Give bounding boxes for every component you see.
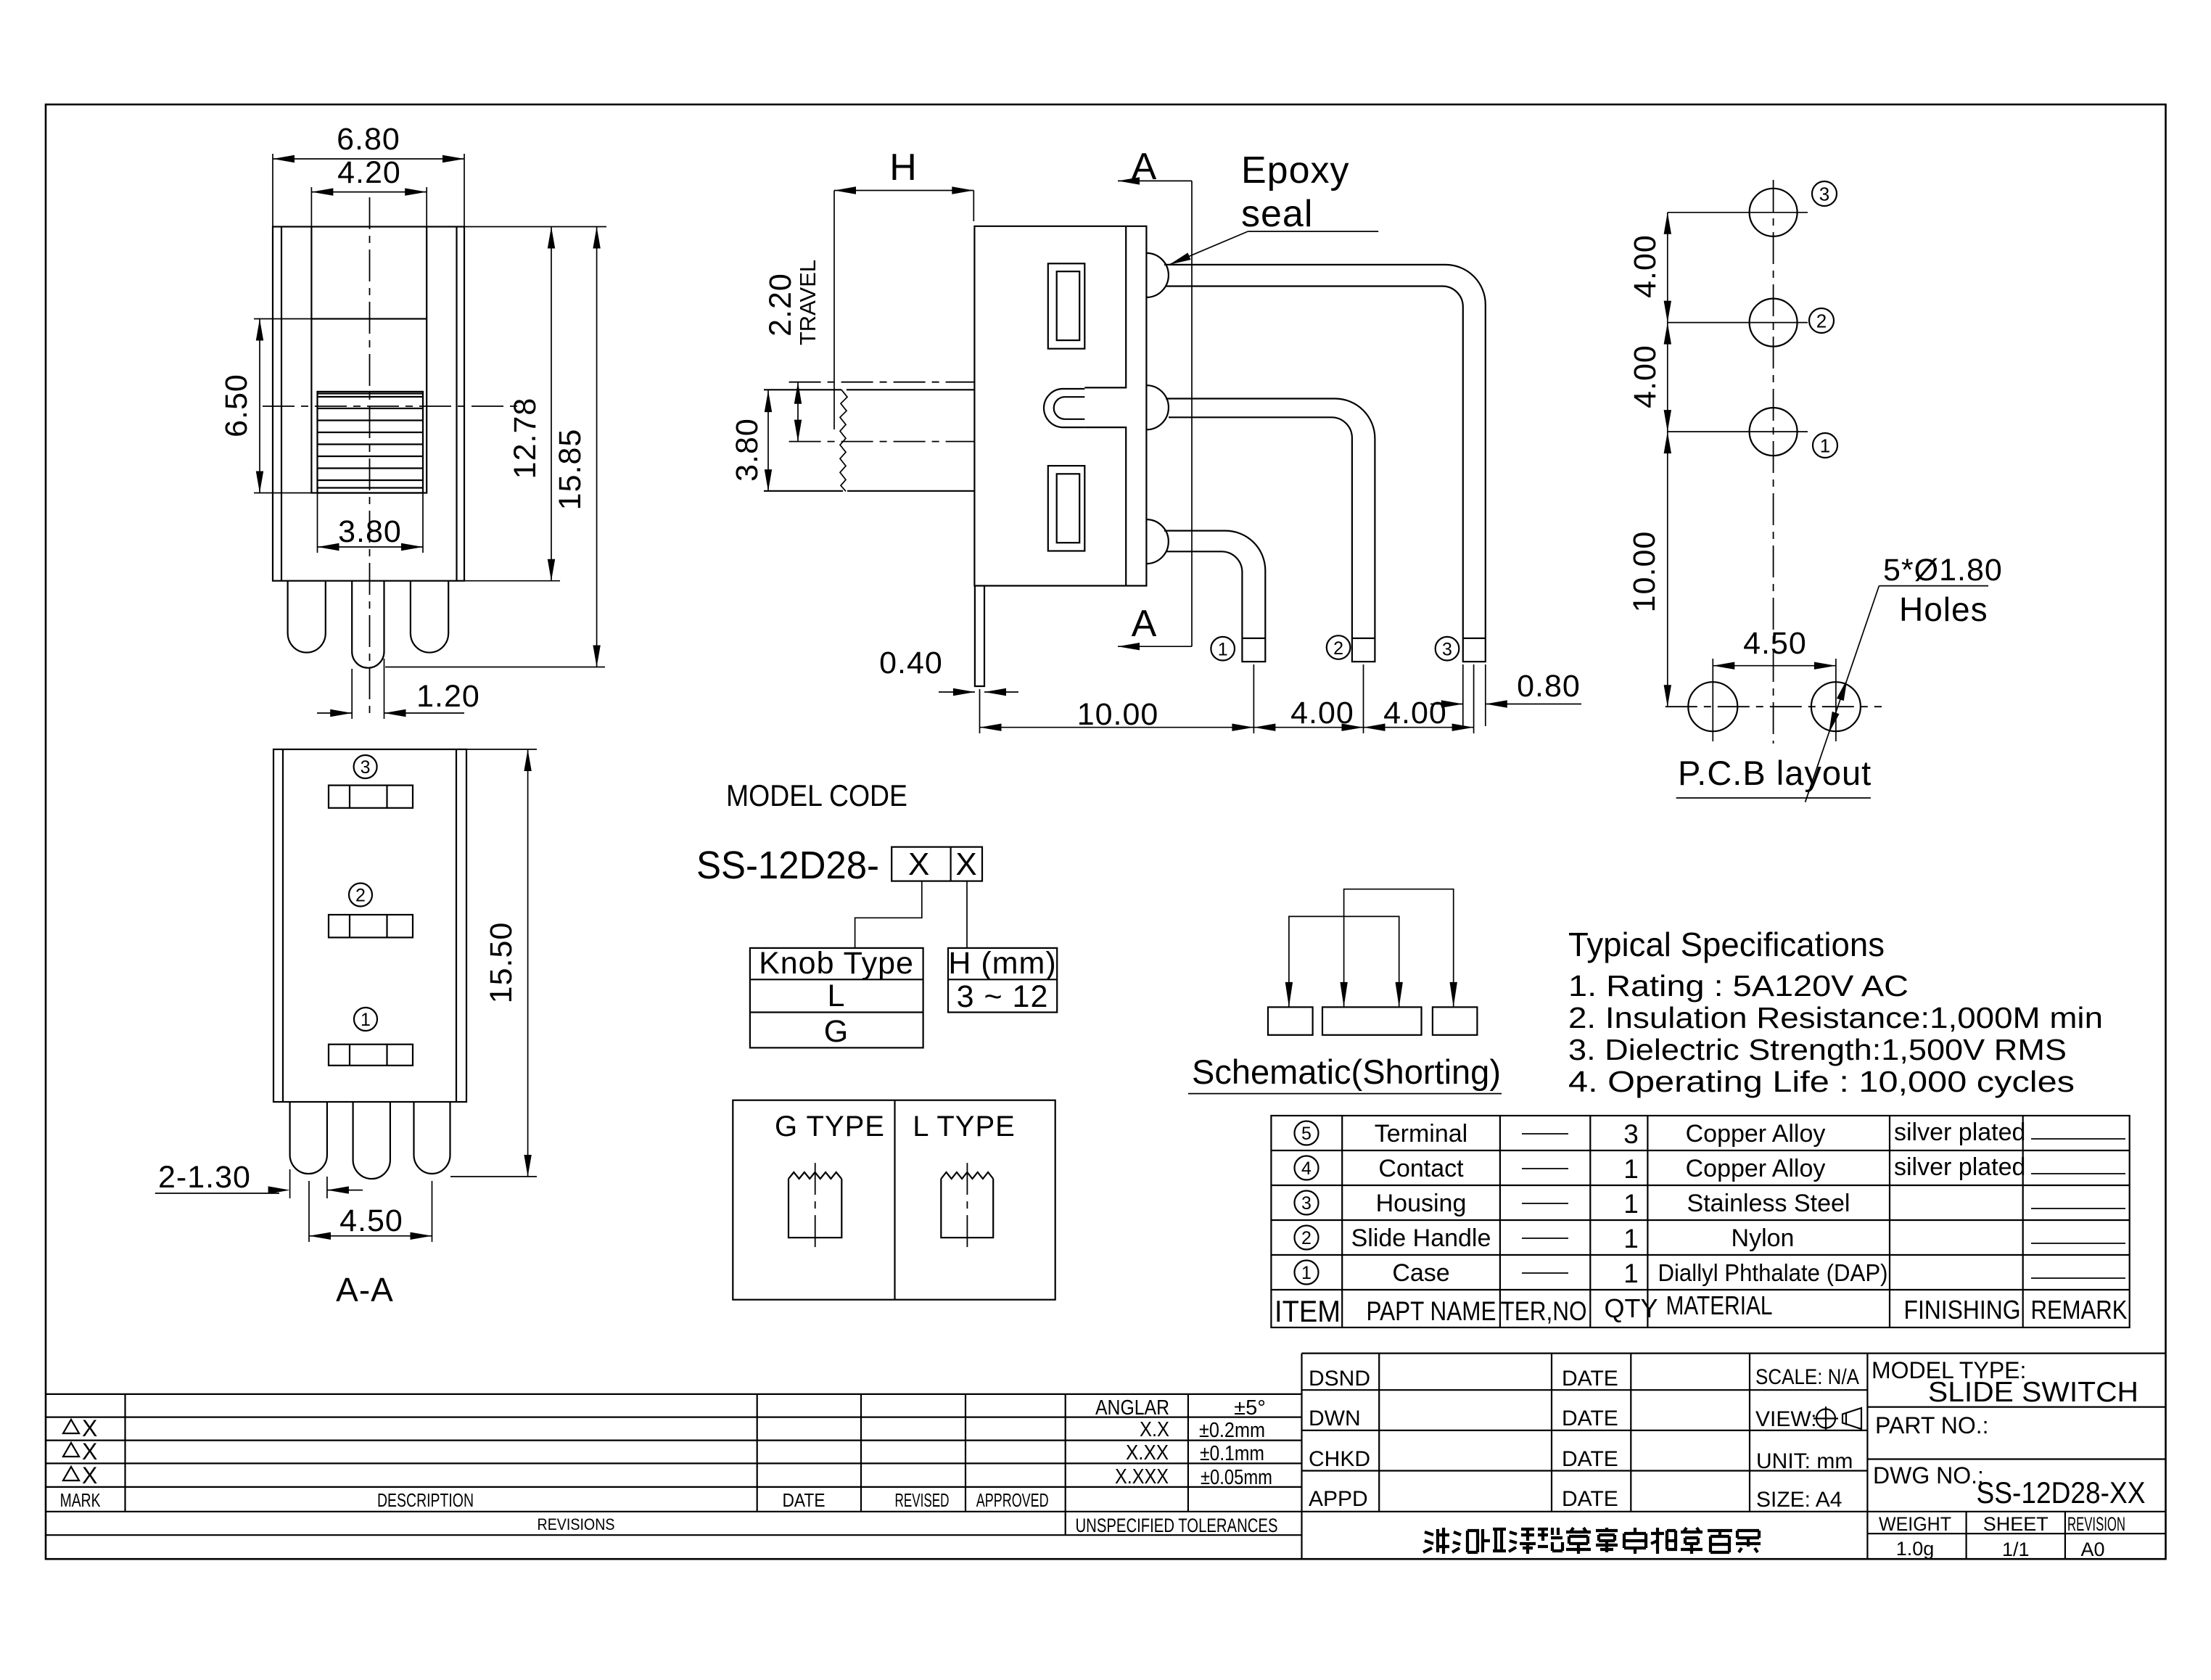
leader from first X bbox=[855, 881, 922, 948]
svg-text:Epoxy: Epoxy bbox=[1241, 149, 1350, 192]
svg-text:1.20: 1.20 bbox=[416, 679, 480, 714]
terminal pin right (front) bbox=[411, 581, 448, 653]
svg-text:REVISED: REVISED bbox=[895, 1489, 950, 1511]
svg-text:Case: Case bbox=[1392, 1259, 1449, 1287]
svg-text:DATE: DATE bbox=[1562, 1367, 1618, 1391]
weight sheet revision bbox=[1879, 1513, 2125, 1560]
X X boxes bbox=[892, 847, 982, 882]
svg-text:REVISIONS: REVISIONS bbox=[538, 1515, 615, 1533]
parts table grid bbox=[1271, 1116, 2129, 1327]
svg-text:DATE: DATE bbox=[1562, 1447, 1618, 1471]
H(mm) table bbox=[948, 946, 1057, 1014]
dimension 4.50 (pcb) bbox=[1713, 626, 1836, 673]
row item 1 Case bbox=[1295, 1259, 2126, 1288]
scale / view / unit / size bbox=[1755, 1365, 1859, 1512]
svg-text:3: 3 bbox=[1301, 1193, 1312, 1214]
svg-text:Holes: Holes bbox=[1899, 590, 1988, 628]
balloon 3 (side) bbox=[1436, 637, 1459, 661]
svg-text:MATERIAL: MATERIAL bbox=[1666, 1290, 1773, 1320]
terminal slot 2 bbox=[329, 915, 413, 937]
svg-text:4.20: 4.20 bbox=[337, 155, 401, 190]
svg-text:3: 3 bbox=[1819, 184, 1829, 205]
svg-text:±0.1mm: ±0.1mm bbox=[1200, 1442, 1264, 1465]
svg-text:4.50: 4.50 bbox=[339, 1203, 403, 1238]
knob centerline pos1 bbox=[789, 382, 974, 383]
svg-text:Copper Alloy: Copper Alloy bbox=[1686, 1120, 1826, 1148]
svg-text:1: 1 bbox=[1218, 640, 1228, 660]
row item 3 Housing bbox=[1295, 1189, 2126, 1219]
svg-text:PAPT NAME: PAPT NAME bbox=[1367, 1296, 1496, 1326]
dimension 4.20 bbox=[311, 155, 427, 227]
Epoxy seal label bbox=[1168, 149, 1378, 268]
svg-text:TRAVEL: TRAVEL bbox=[795, 260, 820, 345]
MARK row labels bbox=[60, 1489, 1049, 1511]
svg-text:TER,NO: TER,NO bbox=[1501, 1296, 1587, 1326]
svg-text:Terminal: Terminal bbox=[1375, 1120, 1467, 1148]
dimension H bbox=[834, 147, 973, 429]
label P.C.B layout bbox=[1676, 754, 1872, 798]
tolerance rows bbox=[1095, 1396, 1272, 1489]
pin center (A-A) bbox=[353, 1102, 390, 1179]
svg-text:SS-12D28-: SS-12D28- bbox=[696, 844, 879, 887]
svg-text:X.XX: X.XX bbox=[1126, 1441, 1169, 1465]
bottom holes crosshairs bbox=[1713, 673, 1836, 741]
hole 2 crosshair bbox=[1668, 322, 1808, 324]
svg-text:seal: seal bbox=[1241, 193, 1313, 235]
svg-text:X: X bbox=[82, 1462, 97, 1488]
dimension 0.40 bbox=[879, 646, 1018, 696]
svg-text:VIEW:: VIEW: bbox=[1755, 1407, 1816, 1431]
header row bbox=[1275, 1290, 2128, 1328]
svg-text:ITEM: ITEM bbox=[1275, 1294, 1341, 1328]
svg-text:2: 2 bbox=[1333, 638, 1343, 659]
slide knob with serrations bbox=[318, 392, 424, 493]
terminal slot 3 bbox=[329, 786, 413, 808]
svg-text:L TYPE: L TYPE bbox=[913, 1111, 1016, 1142]
epoxy seal bump middle bbox=[1146, 385, 1169, 429]
balloon 1 (side) bbox=[1211, 637, 1235, 661]
svg-text:DWN: DWN bbox=[1309, 1407, 1361, 1430]
revisions table grid bbox=[46, 1394, 2166, 1535]
svg-text:2: 2 bbox=[355, 886, 366, 906]
dimension 3.80 (travel) bbox=[730, 390, 772, 491]
svg-text:Slide Handle: Slide Handle bbox=[1351, 1224, 1491, 1252]
wire net A bbox=[1289, 916, 1399, 1007]
terminal slot 1 bbox=[329, 1045, 413, 1066]
dimension 0.80 bbox=[1430, 664, 1581, 726]
hole bottom-left bbox=[1688, 682, 1737, 731]
first angle projection symbol bbox=[1813, 1407, 1861, 1430]
svg-text:3 ~ 12: 3 ~ 12 bbox=[957, 979, 1049, 1014]
balloon 2 bbox=[349, 884, 372, 907]
svg-text:H: H bbox=[889, 147, 917, 189]
svg-text:H (mm): H (mm) bbox=[948, 946, 1056, 981]
schematic terminal box 2 bbox=[1322, 1007, 1422, 1034]
svg-text:A: A bbox=[1132, 146, 1157, 188]
svg-text:2. Insulation Resistance:1,000: 2. Insulation Resistance:1,000M min bbox=[1568, 1001, 2103, 1034]
svg-text:FINISHING: FINISHING bbox=[1904, 1295, 2021, 1325]
svg-text:10.00: 10.00 bbox=[1077, 697, 1159, 732]
upper window bbox=[1048, 263, 1085, 348]
hole 1 crosshair bbox=[1668, 431, 1808, 432]
balloon 1 (pcb) bbox=[1813, 433, 1837, 458]
svg-text:Stainless Steel: Stainless Steel bbox=[1687, 1190, 1850, 1217]
housing plate (side view) bbox=[1126, 226, 1146, 586]
svg-text:DSND: DSND bbox=[1309, 1367, 1370, 1391]
pin left (A-A) bbox=[290, 1102, 327, 1174]
svg-text:SS-12D28-XX: SS-12D28-XX bbox=[1977, 1475, 2146, 1510]
svg-text:Copper Alloy: Copper Alloy bbox=[1686, 1155, 1826, 1182]
svg-text:A: A bbox=[1132, 603, 1157, 645]
svg-text:DATE: DATE bbox=[1562, 1407, 1618, 1430]
dimension 10.00 bbox=[980, 664, 1254, 733]
svg-text:WEIGHT: WEIGHT bbox=[1879, 1513, 1951, 1535]
schematic terminal box 3 bbox=[1433, 1007, 1478, 1034]
svg-text:4.00: 4.00 bbox=[1628, 345, 1663, 408]
svg-text:DESCRIPTION: DESCRIPTION bbox=[377, 1489, 474, 1511]
svg-text:APPD: APPD bbox=[1309, 1487, 1368, 1511]
svg-text:3.80: 3.80 bbox=[730, 418, 765, 482]
pin right (A-A) bbox=[414, 1102, 450, 1174]
svg-text:15.85: 15.85 bbox=[553, 429, 588, 511]
svg-text:Housing: Housing bbox=[1376, 1190, 1467, 1217]
case body (side view) bbox=[974, 226, 1126, 586]
balloon 3 bbox=[354, 755, 377, 778]
dimension 12.78 bbox=[464, 227, 606, 581]
svg-text:X: X bbox=[955, 847, 977, 882]
leader from second X bbox=[966, 881, 968, 948]
svg-text:6.80: 6.80 bbox=[337, 122, 400, 157]
svg-text:4. Operating Life : 10,000 cyc: 4. Operating Life : 10,000 cycles bbox=[1568, 1065, 2075, 1098]
svg-text:3: 3 bbox=[1442, 640, 1452, 660]
svg-text:4.00: 4.00 bbox=[1628, 234, 1663, 298]
svg-text:SLIDE SWITCH: SLIDE SWITCH bbox=[1928, 1377, 2138, 1408]
svg-text:DATE: DATE bbox=[1562, 1487, 1618, 1511]
svg-text:±0.2mm: ±0.2mm bbox=[1199, 1419, 1265, 1442]
svg-text:1: 1 bbox=[1623, 1224, 1639, 1253]
svg-text:2.20: 2.20 bbox=[763, 273, 798, 337]
label 5*dia1.80 Holes bbox=[1806, 553, 2003, 802]
svg-text:REVISION: REVISION bbox=[2067, 1513, 2125, 1535]
row item 2 Slide Handle bbox=[1295, 1224, 2126, 1253]
terminal pin center (front) bbox=[352, 581, 384, 668]
svg-text:±0.05mm: ±0.05mm bbox=[1201, 1466, 1272, 1489]
vertical dimension chain line bbox=[1664, 213, 1671, 707]
knob shaft with break bbox=[764, 390, 974, 491]
svg-text:1: 1 bbox=[1301, 1263, 1312, 1283]
svg-text:A0: A0 bbox=[2080, 1539, 2104, 1560]
svg-text:MARK: MARK bbox=[60, 1489, 101, 1511]
svg-text:Knob Type: Knob Type bbox=[759, 946, 914, 981]
svg-text:2: 2 bbox=[1816, 310, 1827, 332]
svg-text:1/1: 1/1 bbox=[2002, 1539, 2030, 1560]
epoxy seal bump top bbox=[1146, 253, 1168, 297]
title block grid bbox=[1302, 1354, 2166, 1560]
svg-text:0.80: 0.80 bbox=[1517, 669, 1581, 704]
svg-text:4.00: 4.00 bbox=[1290, 696, 1354, 730]
hole bottom-right bbox=[1811, 682, 1861, 731]
svg-text:SHEET: SHEET bbox=[1983, 1513, 2049, 1535]
hole 2 bbox=[1750, 299, 1798, 347]
svg-text:5: 5 bbox=[1301, 1124, 1312, 1144]
dimension 3.80 bbox=[318, 493, 424, 553]
svg-text:1. Rating : 5A120V AC: 1. Rating : 5A120V AC bbox=[1568, 969, 1909, 1002]
svg-text:silver plated: silver plated bbox=[1894, 1119, 2025, 1146]
section line A-A bbox=[1118, 146, 1192, 650]
svg-text:DWG NO.:: DWG NO.: bbox=[1873, 1462, 1984, 1488]
svg-text:P.C.B layout: P.C.B layout bbox=[1678, 754, 1872, 792]
knob window bbox=[311, 319, 427, 493]
bottom row centerline bbox=[1666, 706, 1882, 707]
lower window bbox=[1048, 466, 1085, 551]
epoxy seal bump bottom bbox=[1146, 519, 1168, 564]
svg-text:X: X bbox=[82, 1415, 97, 1441]
svg-text:0.40: 0.40 bbox=[879, 646, 943, 680]
movable contact bbox=[1044, 389, 1084, 427]
vertical centerline bbox=[369, 197, 371, 720]
svg-text:REMARK: REMARK bbox=[2031, 1295, 2128, 1325]
svg-text:APPROVED: APPROVED bbox=[976, 1489, 1049, 1511]
dimension 4.00 (pins 1-2) bbox=[1253, 664, 1363, 733]
svg-text:2: 2 bbox=[1301, 1228, 1312, 1248]
svg-text:1.0g: 1.0g bbox=[1896, 1538, 1935, 1560]
svg-text:PART NO.:: PART NO.: bbox=[1875, 1412, 1988, 1438]
REVISIONS row bbox=[538, 1515, 1278, 1536]
L type knob sketch bbox=[941, 1163, 993, 1253]
Schematic(Shorting) label bbox=[1188, 1053, 1502, 1094]
svg-text:X.XXX: X.XXX bbox=[1115, 1465, 1169, 1488]
svg-text:UNSPECIFIED TOLERANCES: UNSPECIFIED TOLERANCES bbox=[1076, 1515, 1278, 1536]
svg-text:1: 1 bbox=[361, 1010, 371, 1030]
dimension 4.00 (pins 2-3) bbox=[1364, 664, 1474, 733]
svg-text:Typical Specifications: Typical Specifications bbox=[1568, 926, 1885, 963]
svg-text:Nylon: Nylon bbox=[1732, 1224, 1795, 1252]
company name (CJK glyph approximations) bbox=[1423, 1528, 1761, 1554]
bottom mounting tab bbox=[975, 586, 984, 687]
knob type table bbox=[750, 946, 923, 1049]
svg-text:QTY: QTY bbox=[1604, 1293, 1658, 1323]
signature rows bbox=[1309, 1367, 1618, 1511]
svg-text:L: L bbox=[828, 979, 846, 1013]
dimension 2.20 TRAVEL bbox=[763, 260, 820, 442]
balloon 2 (side) bbox=[1327, 635, 1351, 659]
model type bbox=[1872, 1357, 2138, 1408]
svg-text:2-1.30: 2-1.30 bbox=[158, 1160, 251, 1195]
svg-text:silver plated: silver plated bbox=[1894, 1153, 2025, 1181]
svg-text:1: 1 bbox=[1820, 435, 1830, 457]
svg-text:G: G bbox=[824, 1014, 849, 1049]
svg-text:X: X bbox=[908, 847, 930, 882]
dimension 15.50 bbox=[450, 749, 537, 1177]
svg-text:X: X bbox=[82, 1438, 97, 1465]
svg-text:4.00: 4.00 bbox=[1383, 696, 1447, 730]
svg-text:SIZE: A4: SIZE: A4 bbox=[1756, 1488, 1842, 1512]
svg-text:ANGLAR: ANGLAR bbox=[1095, 1396, 1169, 1420]
contact arrows bbox=[1285, 982, 1457, 1008]
svg-text:3: 3 bbox=[361, 757, 371, 778]
G type knob sketch bbox=[789, 1163, 841, 1253]
svg-text:G TYPE: G TYPE bbox=[775, 1111, 885, 1142]
pin 3 (side) bbox=[1164, 265, 1486, 662]
svg-text:CHKD: CHKD bbox=[1309, 1447, 1370, 1471]
balloon 2 (pcb) bbox=[1809, 308, 1834, 333]
svg-text:DATE: DATE bbox=[783, 1489, 825, 1511]
horizontal centerline bbox=[263, 405, 521, 407]
svg-text:SCALE: N/A: SCALE: N/A bbox=[1755, 1365, 1859, 1389]
dimension 6.50 bbox=[219, 319, 311, 493]
svg-text:±5°: ±5° bbox=[1234, 1396, 1266, 1420]
G/L type box bbox=[733, 1100, 1055, 1300]
dimension 15.85 bbox=[385, 227, 605, 667]
svg-text:3: 3 bbox=[1623, 1119, 1639, 1149]
dimension 1.20 bbox=[317, 659, 480, 719]
svg-text:5*Ø1.80: 5*Ø1.80 bbox=[1883, 553, 2003, 588]
svg-text:15.50: 15.50 bbox=[484, 922, 519, 1004]
svg-text:6.50: 6.50 bbox=[219, 374, 254, 437]
dimension 4.50 (A-A) bbox=[309, 1181, 432, 1242]
svg-text:X.X: X.X bbox=[1140, 1418, 1169, 1441]
terminal pin left (front) bbox=[288, 581, 326, 653]
svg-text:Diallyl Phthalate (DAP): Diallyl Phthalate (DAP) bbox=[1658, 1259, 1888, 1286]
svg-text:4: 4 bbox=[1301, 1158, 1312, 1179]
svg-text:1: 1 bbox=[1623, 1189, 1639, 1219]
svg-text:Schematic(Shorting): Schematic(Shorting) bbox=[1192, 1053, 1501, 1091]
wire net B bbox=[1344, 889, 1454, 1008]
dwg no bbox=[1873, 1462, 2146, 1510]
svg-text:Contact: Contact bbox=[1378, 1155, 1464, 1182]
svg-text:1: 1 bbox=[1623, 1259, 1639, 1288]
slot opening walls bbox=[311, 227, 427, 319]
hole 3 crosshair bbox=[1668, 212, 1808, 213]
svg-text:10.00: 10.00 bbox=[1627, 531, 1662, 613]
dimension 2-1.30 bbox=[155, 1160, 363, 1198]
hole 3 bbox=[1750, 189, 1798, 236]
row item 4 Contact bbox=[1295, 1153, 2126, 1184]
svg-text:12.78: 12.78 bbox=[508, 398, 543, 479]
schematic terminal box 1 bbox=[1268, 1007, 1313, 1034]
case body (front view) bbox=[273, 227, 464, 581]
knob centerline pos2 bbox=[789, 441, 974, 442]
svg-text:MODEL CODE: MODEL CODE bbox=[726, 778, 907, 812]
delta-X marks bbox=[63, 1415, 97, 1488]
column centerline bbox=[1773, 180, 1774, 744]
svg-text:1: 1 bbox=[1623, 1154, 1639, 1184]
dimension 6.80 bbox=[273, 122, 464, 227]
pin 2 (side) bbox=[1166, 399, 1375, 662]
balloon 3 (pcb) bbox=[1812, 181, 1837, 206]
balloon 1 bbox=[354, 1008, 377, 1031]
svg-text:3.80: 3.80 bbox=[338, 514, 402, 549]
pin 1 (side) bbox=[1164, 531, 1265, 662]
hole 1 bbox=[1750, 408, 1798, 456]
svg-text:A-A: A-A bbox=[336, 1271, 394, 1309]
svg-text:3. Dielectric Strength:1,500V: 3. Dielectric Strength:1,500V RMS bbox=[1568, 1033, 2067, 1066]
svg-text:4.50: 4.50 bbox=[1743, 626, 1807, 661]
svg-text:UNIT: mm: UNIT: mm bbox=[1756, 1449, 1853, 1473]
case body (A-A section) bbox=[273, 749, 466, 1102]
row item 5 Terminal bbox=[1295, 1119, 2126, 1149]
